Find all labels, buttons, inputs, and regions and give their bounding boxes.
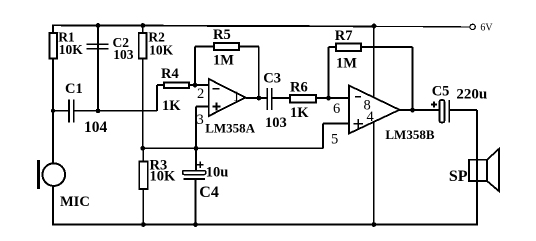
svg-text:R6: R6 xyxy=(290,80,308,96)
svg-text:3: 3 xyxy=(197,112,204,128)
svg-text:LM358B: LM358B xyxy=(385,127,434,142)
svg-text:104: 104 xyxy=(84,119,108,136)
svg-text:1K: 1K xyxy=(290,105,309,121)
svg-text:SP: SP xyxy=(449,168,468,185)
svg-text:10K: 10K xyxy=(150,169,177,185)
svg-text:1M: 1M xyxy=(213,53,234,69)
svg-text:103: 103 xyxy=(265,115,287,131)
svg-text:1: 1 xyxy=(233,89,240,105)
svg-text:220u: 220u xyxy=(456,87,487,103)
svg-text:C4: C4 xyxy=(199,184,219,201)
svg-text:5: 5 xyxy=(331,132,338,148)
svg-text:C5: C5 xyxy=(432,84,450,100)
svg-text:LM358A: LM358A xyxy=(205,121,255,136)
svg-text:6: 6 xyxy=(333,101,340,117)
svg-text:1K: 1K xyxy=(162,98,181,114)
svg-text:C3: C3 xyxy=(263,71,281,87)
svg-text:4: 4 xyxy=(367,109,375,125)
svg-text:103: 103 xyxy=(113,47,134,62)
svg-text:R7: R7 xyxy=(335,28,353,44)
svg-text:1M: 1M xyxy=(336,56,357,72)
svg-text:R5: R5 xyxy=(213,27,231,43)
svg-text:6V: 6V xyxy=(480,23,493,34)
svg-text:10K: 10K xyxy=(149,43,174,58)
svg-text:MIC: MIC xyxy=(60,194,90,210)
svg-text:2: 2 xyxy=(197,86,204,102)
svg-text:10u: 10u xyxy=(206,165,229,181)
svg-text:C1: C1 xyxy=(65,81,83,97)
svg-text:10K: 10K xyxy=(59,42,84,57)
svg-text:R4: R4 xyxy=(161,66,179,82)
